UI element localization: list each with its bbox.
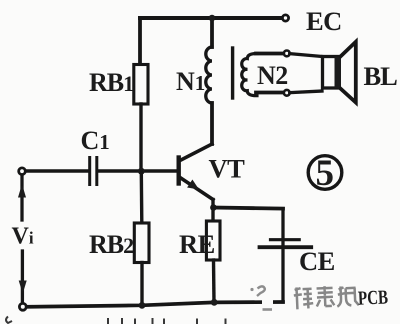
- transistor VT: [179, 144, 213, 200]
- wire emitter to CE: [213, 208, 283, 209]
- terminal N2 top: [284, 51, 290, 57]
- svg-text:EC: EC: [306, 6, 342, 36]
- wire input top to C1: [25, 169, 88, 172]
- capacitor C1: [90, 158, 97, 185]
- terminal input bottom: [19, 303, 26, 310]
- wire input arrow upper: [20, 176, 23, 220]
- svg-text:C1: C1: [81, 126, 110, 155]
- wire N2 bottom: [256, 91, 283, 95]
- wire emitter vertical: [211, 200, 214, 222]
- wire input arrow lower: [21, 251, 24, 303]
- terminal input top: [19, 168, 26, 175]
- wire N1 top: [210, 18, 214, 47]
- svg-text:BL: BL: [364, 61, 398, 91]
- wire RB2 branch upper: [140, 171, 144, 223]
- wire RB1 branch upper: [138, 18, 142, 65]
- svg-text:N2: N2: [257, 61, 288, 90]
- svg-text:RB1: RB1: [89, 68, 133, 97]
- resistor RB2: [134, 223, 149, 263]
- glyph 2: [316, 286, 334, 307]
- transformer core: [231, 48, 234, 98]
- figure number circle 5: [308, 156, 342, 190]
- inductor N1 (transformer primary): [206, 47, 212, 103]
- wire CE branch upper: [281, 209, 284, 302]
- node base junction: [138, 168, 145, 175]
- wire N2 bottom to speaker: [290, 91, 322, 93]
- wire RE to bottom rail: [212, 260, 216, 303]
- node RB2 bottom junction: [139, 302, 146, 309]
- svg-text:PCB: PCB: [358, 286, 389, 309]
- node emitter junction: [210, 204, 217, 211]
- wire top rail: [140, 16, 281, 20]
- svg-text:CE: CE: [299, 246, 335, 276]
- watermark logo icon: [250, 286, 273, 309]
- terminal N2 bottom: [284, 90, 290, 96]
- watermark text: [293, 283, 388, 312]
- svg-text:N1: N1: [176, 67, 205, 96]
- arrow down: [19, 281, 27, 294]
- wire bottom rail: [23, 302, 284, 307]
- wire N2 top to speaker: [290, 54, 322, 57]
- speaker BL: [323, 42, 356, 103]
- svg-text:5: 5: [316, 153, 335, 194]
- svg-text:VT: VT: [209, 154, 246, 184]
- node RE bottom junction: [211, 299, 218, 306]
- bottom edge partial glyphs: [6, 317, 226, 324]
- svg-text:RE: RE: [179, 229, 215, 259]
- resistor RB1: [134, 65, 148, 105]
- capacitor CE: [260, 240, 312, 248]
- terminal EC: [282, 15, 288, 21]
- arrow up: [18, 184, 26, 198]
- svg-text:RB2: RB2: [89, 230, 134, 259]
- wire N2 top: [256, 52, 283, 56]
- glyph 3: [337, 286, 359, 307]
- inductor N2 (transformer secondary): [242, 54, 257, 96]
- wire C1 to base: [98, 169, 177, 173]
- svg-text:Vi: Vi: [12, 224, 34, 250]
- node collector rail junction: [209, 15, 216, 22]
- glyph 1: [293, 287, 313, 310]
- wire collector vertical: [210, 103, 214, 144]
- wire RB2 to bottom rail: [140, 263, 143, 306]
- resistor RE: [206, 221, 220, 260]
- wire RB1 to base junction: [139, 104, 142, 171]
